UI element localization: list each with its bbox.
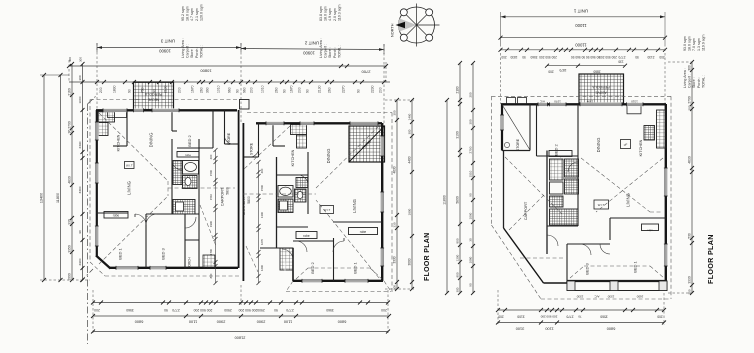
unit 1 window top b bbox=[550, 102, 567, 106]
vertical dimension chain C (right plan) bbox=[472, 63, 474, 293]
svg-text:2770: 2770 bbox=[566, 315, 573, 319]
extension ticks right of left drawing bbox=[385, 99, 414, 101]
unit 3 robe bbox=[104, 212, 128, 219]
svg-text:90: 90 bbox=[274, 308, 278, 312]
svg-text:11800: 11800 bbox=[56, 193, 60, 203]
svg-text:1.3 sqm: 1.3 sqm bbox=[697, 38, 701, 51]
svg-text:BED 3: BED 3 bbox=[585, 262, 590, 274]
svg-text:KITCHEN: KITCHEN bbox=[291, 149, 295, 166]
svg-text:W.I.T: W.I.T bbox=[598, 203, 605, 207]
unit 1 left wall bbox=[501, 104, 503, 151]
dimension line UNIT 2 overall 10900 (top row) bbox=[241, 49, 384, 50]
svg-text:120.0 sqm: 120.0 sqm bbox=[199, 4, 203, 21]
svg-text:1200: 1200 bbox=[456, 254, 460, 261]
eave line unit 1 bbox=[492, 95, 672, 97]
unit 2 verandah dashed outline bbox=[286, 291, 391, 293]
unit 2 window right wall a bbox=[380, 136, 384, 156]
dimension tick row (right plan top) bbox=[501, 49, 666, 51]
svg-text:11000: 11000 bbox=[575, 43, 587, 48]
svg-text:LIVING: LIVING bbox=[352, 199, 357, 213]
unit 3 window top wall 2 bbox=[134, 108, 144, 112]
svg-text:1510: 1510 bbox=[469, 170, 473, 177]
svg-text:1670: 1670 bbox=[260, 238, 264, 245]
svg-text:200 900 200: 200 900 200 bbox=[238, 308, 257, 312]
svg-text:18.0 sqm: 18.0 sqm bbox=[186, 6, 190, 21]
svg-text:1510: 1510 bbox=[209, 193, 213, 200]
svg-text:200 900 200: 200 900 200 bbox=[193, 308, 212, 312]
svg-text:CARPORT: CARPORT bbox=[524, 201, 528, 220]
pergola unit 2 patio (hatched) bbox=[349, 126, 385, 162]
unit 3 kitchen bench (hatched) bbox=[98, 112, 115, 123]
svg-text:18.0 sqm: 18.0 sqm bbox=[324, 6, 328, 21]
svg-text:STORE: STORE bbox=[516, 138, 520, 151]
svg-text:93.0 sqm: 93.0 sqm bbox=[683, 36, 687, 51]
unit 1 bed3 door arc bbox=[580, 244, 591, 255]
svg-text:200 900 200: 200 900 200 bbox=[599, 55, 617, 59]
svg-text:200 900 200: 200 900 200 bbox=[539, 55, 557, 59]
svg-text:DINING: DINING bbox=[596, 138, 601, 153]
svg-text:robe: robe bbox=[303, 234, 310, 238]
eave line unit 2 bbox=[247, 112, 392, 114]
svg-text:1100: 1100 bbox=[283, 320, 292, 325]
unit 2 robe 2 bbox=[349, 228, 378, 235]
pergola unit 1 (hatched) bbox=[579, 74, 624, 105]
unit 2 lower-left walls bbox=[292, 248, 294, 281]
svg-text:3560: 3560 bbox=[326, 308, 334, 312]
svg-text:FLOOR PLAN: FLOOR PLAN bbox=[424, 233, 431, 282]
svg-text:BED 2: BED 2 bbox=[554, 143, 559, 155]
svg-text:11800: 11800 bbox=[443, 195, 447, 205]
svg-text:2770: 2770 bbox=[618, 55, 625, 59]
svg-text:300: 300 bbox=[456, 287, 460, 292]
svg-text:2.0 sqm: 2.0 sqm bbox=[333, 8, 337, 21]
unit 2 bed2 door arc bbox=[296, 241, 307, 252]
svg-text:3100: 3100 bbox=[456, 131, 460, 139]
svg-text:90: 90 bbox=[164, 308, 168, 312]
svg-text:Porch :: Porch : bbox=[195, 47, 199, 58]
svg-text:4630: 4630 bbox=[688, 156, 692, 164]
svg-text:6800: 6800 bbox=[134, 320, 143, 325]
svg-text:1000: 1000 bbox=[78, 96, 82, 103]
extension line unit2 right bbox=[383, 44, 385, 123]
svg-text:70: 70 bbox=[578, 315, 582, 319]
dimension line 10800 / 2700 (row 2) bbox=[69, 65, 386, 67]
extension line left boundary bbox=[68, 60, 70, 82]
svg-text:W.I.T: W.I.T bbox=[324, 208, 331, 212]
unit 1 wit box bbox=[594, 200, 609, 209]
svg-text:300: 300 bbox=[688, 65, 692, 71]
svg-text:10900: 10900 bbox=[159, 49, 171, 54]
svg-text:BED 1: BED 1 bbox=[118, 247, 123, 259]
unit 2 robe 1 bbox=[296, 232, 317, 239]
svg-text:1530: 1530 bbox=[576, 295, 583, 299]
svg-text:200: 200 bbox=[99, 87, 103, 93]
unit 1 bottom wall left part bbox=[544, 282, 568, 284]
svg-text:DINING: DINING bbox=[326, 149, 331, 164]
svg-text:1830: 1830 bbox=[113, 85, 117, 93]
svg-text:200 900 200: 200 900 200 bbox=[540, 315, 557, 319]
svg-text:Porch :: Porch : bbox=[333, 47, 337, 58]
vertical dimension 13400 (far left) bbox=[43, 75, 45, 280]
svg-text:900: 900 bbox=[456, 272, 460, 277]
extension lines right plan top bbox=[500, 44, 502, 104]
svg-text:90: 90 bbox=[469, 193, 473, 197]
svg-text:1010: 1010 bbox=[217, 85, 221, 93]
svg-text:STORE: STORE bbox=[250, 142, 254, 155]
svg-text:300: 300 bbox=[688, 289, 692, 294]
svg-text:BED 1: BED 1 bbox=[353, 261, 358, 273]
svg-text:PORCH: PORCH bbox=[188, 257, 192, 269]
svg-text:Carport :: Carport : bbox=[186, 44, 190, 58]
svg-text:21800: 21800 bbox=[234, 336, 246, 341]
svg-text:200: 200 bbox=[381, 308, 387, 312]
dimension line UNIT 3 overall 10900 (top row) bbox=[97, 47, 241, 49]
svg-text:400: 400 bbox=[68, 57, 72, 62]
unit 3 entry door arc bbox=[185, 217, 196, 228]
svg-text:DINING: DINING bbox=[149, 133, 154, 148]
svg-text:2130: 2130 bbox=[647, 55, 654, 59]
svg-text:3330: 3330 bbox=[688, 276, 692, 284]
svg-text:200: 200 bbox=[298, 87, 302, 93]
unit 1 kitchen bench (hatched) bbox=[657, 110, 667, 148]
unit 3 porch steps hatch bbox=[203, 255, 215, 268]
svg-text:1900: 1900 bbox=[209, 220, 213, 227]
svg-text:90: 90 bbox=[469, 283, 473, 287]
svg-text:UNIT 3: UNIT 3 bbox=[160, 39, 175, 44]
svg-text:1700: 1700 bbox=[209, 248, 213, 255]
unit 1 window top a bbox=[538, 102, 548, 106]
svg-text:119.9 sqm: 119.9 sqm bbox=[701, 34, 705, 51]
svg-text:200: 200 bbox=[501, 55, 507, 59]
svg-text:30: 30 bbox=[469, 238, 473, 242]
svg-text:400: 400 bbox=[260, 168, 264, 173]
svg-text:FLOOR PLAN: FLOOR PLAN bbox=[706, 234, 715, 284]
unit 3 bed 2 robe bbox=[177, 152, 199, 158]
svg-text:2700: 2700 bbox=[688, 96, 692, 104]
unit 1 pergola sliding door bbox=[580, 102, 622, 106]
svg-text:2900: 2900 bbox=[257, 308, 265, 312]
svg-text:200: 200 bbox=[469, 92, 473, 97]
unit 3 bath door arc bbox=[172, 160, 182, 170]
svg-text:robe: robe bbox=[647, 228, 653, 232]
svg-text:CARPORT: CARPORT bbox=[221, 187, 225, 206]
unit 2 bottom wall bbox=[293, 280, 383, 282]
svg-text:1060: 1060 bbox=[469, 212, 473, 219]
svg-text:PERGOLA: PERGOLA bbox=[592, 85, 610, 89]
svg-text:BED 3: BED 3 bbox=[161, 247, 166, 259]
svg-text:3560: 3560 bbox=[530, 55, 537, 59]
unit 2 verandah roof dashes bbox=[296, 268, 308, 279]
svg-text:300: 300 bbox=[79, 57, 83, 62]
bottom tick row (right plan) bbox=[498, 309, 664, 311]
svg-text:TOTAL :: TOTAL : bbox=[701, 75, 705, 88]
dimension tick row (left plan top) bbox=[69, 81, 390, 83]
svg-text:330: 330 bbox=[393, 222, 397, 227]
svg-text:7.0 sqm: 7.0 sqm bbox=[692, 38, 696, 51]
svg-text:11000: 11000 bbox=[575, 23, 587, 28]
unit 3 corner splay wall bbox=[96, 256, 111, 269]
svg-text:200: 200 bbox=[178, 87, 182, 93]
unit 1 bottom wall bbox=[567, 280, 667, 282]
svg-text:1670: 1670 bbox=[191, 85, 195, 93]
unit 3 top wall bbox=[96, 109, 237, 111]
svg-text:530: 530 bbox=[688, 233, 692, 239]
svg-text:5800: 5800 bbox=[456, 196, 460, 204]
svg-text:CARPORT: CARPORT bbox=[242, 196, 246, 215]
unit 3 store door arc bbox=[224, 133, 233, 144]
svg-text:Store :: Store : bbox=[328, 47, 332, 58]
bottom extension lines left plan bbox=[92, 290, 94, 334]
unit 3 bed 2 walls bbox=[171, 110, 173, 131]
svg-text:90: 90 bbox=[78, 230, 82, 234]
unit 3 bed3 door arc bbox=[146, 214, 157, 225]
svg-text:260: 260 bbox=[328, 87, 332, 93]
unit 3 carport edge bbox=[198, 214, 200, 268]
pergola unit 3 (hatched) bbox=[134, 82, 174, 110]
svg-text:130: 130 bbox=[618, 60, 624, 64]
svg-text:1100: 1100 bbox=[544, 327, 553, 332]
svg-text:4.7 sqm: 4.7 sqm bbox=[190, 8, 194, 21]
svg-text:LIVING: LIVING bbox=[127, 181, 132, 195]
unit 2 store bbox=[258, 123, 260, 157]
unit 3 eave bottom dashes bbox=[90, 262, 105, 276]
svg-text:3560: 3560 bbox=[126, 308, 134, 312]
unit 2 window bottom wall a bbox=[302, 279, 322, 283]
svg-text:90: 90 bbox=[635, 55, 639, 59]
svg-text:90 960 90: 90 960 90 bbox=[586, 55, 600, 59]
vertical dimension chain (left drawing right side B) bbox=[411, 100, 413, 289]
svg-text:BED 2: BED 2 bbox=[310, 261, 315, 273]
svg-text:2700: 2700 bbox=[469, 146, 473, 153]
unit 1 bath column (hatched) bbox=[550, 159, 564, 180]
svg-text:4400: 4400 bbox=[408, 156, 412, 163]
svg-text:110.3 sqm: 110.3 sqm bbox=[337, 4, 341, 21]
svg-text:300: 300 bbox=[469, 119, 473, 124]
unit 2 window right wall b bbox=[380, 192, 384, 212]
unit 2 bath block (hatched) bbox=[278, 186, 293, 198]
svg-text:KITCHEN: KITCHEN bbox=[117, 134, 121, 151]
unit 1 bed2 door arc bbox=[568, 162, 578, 172]
svg-text:1800: 1800 bbox=[408, 208, 412, 215]
svg-text:1080: 1080 bbox=[469, 256, 473, 263]
roof hip lines unit 2 bbox=[316, 126, 379, 188]
unit 3 porch bbox=[185, 240, 199, 268]
svg-text:2900: 2900 bbox=[256, 320, 265, 325]
property boundary line bbox=[87, 104, 89, 344]
svg-text:90: 90 bbox=[522, 55, 526, 59]
vertical dimension 11800 bbox=[60, 75, 62, 280]
svg-text:200: 200 bbox=[94, 308, 100, 312]
svg-text:200: 200 bbox=[657, 315, 663, 319]
unit 1 window top c bbox=[627, 102, 644, 106]
unit 3 bed1 door arc bbox=[135, 214, 146, 225]
vertical dimension chain A (right plan) bbox=[446, 100, 448, 293]
svg-text:2390: 2390 bbox=[78, 141, 82, 148]
svg-text:90: 90 bbox=[68, 130, 72, 134]
unit 1 bed1 door arc bbox=[600, 244, 610, 254]
unit 1 porch columns bbox=[567, 281, 667, 291]
unit 1 carport splay bbox=[504, 228, 544, 283]
svg-text:300: 300 bbox=[408, 129, 412, 134]
svg-text:2770: 2770 bbox=[172, 308, 180, 312]
svg-text:6800: 6800 bbox=[337, 320, 346, 325]
svg-text:6800: 6800 bbox=[606, 327, 615, 332]
svg-text:1000: 1000 bbox=[68, 273, 72, 281]
svg-text:10900: 10900 bbox=[303, 51, 315, 56]
svg-text:90: 90 bbox=[306, 89, 310, 93]
bottom dimension row 2 (right plan) bbox=[498, 322, 664, 324]
unit 3 carport diagonal dash bbox=[200, 205, 216, 246]
svg-text:A/C: A/C bbox=[594, 295, 600, 299]
hot water unit box bbox=[240, 100, 250, 110]
svg-text:2230: 2230 bbox=[371, 85, 375, 93]
svg-text:960: 960 bbox=[228, 87, 232, 93]
unit 2 kitchen bbox=[272, 123, 274, 146]
svg-text:3560: 3560 bbox=[600, 315, 608, 319]
svg-text:Carport :: Carport : bbox=[324, 44, 328, 58]
unit 2 window right wall c bbox=[380, 248, 384, 266]
svg-text:µF: µF bbox=[624, 143, 628, 147]
bottom dimension row 3 total 21800 bbox=[93, 331, 388, 333]
svg-text:Store :: Store : bbox=[692, 77, 696, 88]
vertical dimension chain (left drawing right side A) bbox=[396, 100, 398, 289]
unit 2 bath door arc bbox=[298, 175, 308, 185]
svg-text:4830: 4830 bbox=[68, 176, 72, 184]
svg-text:robe: robe bbox=[185, 153, 191, 157]
svg-text:2270: 2270 bbox=[342, 85, 346, 93]
unit 3 window left wall b bbox=[95, 163, 99, 183]
unit 1 store bbox=[502, 150, 530, 152]
svg-text:200: 200 bbox=[250, 87, 254, 93]
svg-text:Living Area :: Living Area : bbox=[319, 38, 323, 58]
unit 3 hall walls bbox=[146, 213, 199, 215]
extension line party wall bbox=[240, 43, 242, 122]
svg-text:ABOVE: ABOVE bbox=[595, 91, 607, 95]
svg-text:260: 260 bbox=[200, 87, 204, 93]
svg-text:83.8 sqm: 83.8 sqm bbox=[319, 6, 323, 21]
svg-text:960: 960 bbox=[243, 87, 247, 93]
svg-text:200: 200 bbox=[379, 87, 383, 93]
svg-text:10800: 10800 bbox=[200, 69, 212, 74]
unit 2 patio sliding door bbox=[350, 121, 378, 125]
svg-text:800: 800 bbox=[456, 238, 460, 243]
extension line unit3 left bbox=[96, 43, 98, 110]
party wall bbox=[238, 110, 240, 268]
svg-text:Living Area :: Living Area : bbox=[181, 38, 185, 58]
svg-text:PERGOLA: PERGOLA bbox=[144, 92, 162, 96]
svg-text:200: 200 bbox=[548, 70, 554, 74]
svg-text:2770: 2770 bbox=[286, 308, 294, 312]
extension line row2 right bbox=[385, 62, 387, 82]
unit 2 bed wall bbox=[333, 238, 335, 281]
svg-text:18.6 sqm: 18.6 sqm bbox=[688, 36, 692, 51]
eave line unit 3 bbox=[90, 99, 241, 101]
unit 1 bed2 robe bbox=[549, 151, 572, 157]
unit 2 window top wall a bbox=[266, 121, 284, 125]
north point symbol bbox=[396, 4, 440, 47]
svg-text:1530: 1530 bbox=[607, 295, 614, 299]
svg-text:1870: 1870 bbox=[559, 68, 566, 72]
svg-text:TOTAL :: TOTAL : bbox=[337, 45, 341, 58]
svg-text:90 960 90: 90 960 90 bbox=[571, 55, 585, 59]
unit 3 pergola sliding door bbox=[152, 108, 179, 112]
svg-text:390: 390 bbox=[206, 87, 210, 93]
unit 3 laundry (hatched) bbox=[173, 200, 195, 215]
svg-text:1200: 1200 bbox=[260, 264, 264, 271]
svg-text:1100: 1100 bbox=[188, 320, 197, 325]
unit 3 store bbox=[224, 110, 226, 144]
unit 3 window bottom wall a bbox=[116, 266, 138, 270]
unit 1 ac box bbox=[621, 140, 631, 149]
vertical dimension chain segments (left) bbox=[71, 64, 73, 280]
svg-text:LIVING: LIVING bbox=[626, 193, 631, 207]
unit 3 window bottom wall b bbox=[150, 266, 166, 270]
svg-text:3000: 3000 bbox=[408, 258, 412, 265]
svg-text:3350: 3350 bbox=[68, 245, 72, 253]
unit 3 bed1/bed3 wall bbox=[145, 217, 147, 268]
svg-text:2860: 2860 bbox=[593, 70, 600, 74]
svg-text:PORCH: PORCH bbox=[283, 262, 287, 273]
unit 1 bed2 walls bbox=[536, 104, 538, 156]
unit 1 entry door arc bbox=[547, 235, 558, 246]
svg-text:W.I.T: W.I.T bbox=[126, 164, 133, 168]
vertical dimension chain B (right plan) bbox=[459, 63, 461, 293]
svg-text:UNIT 1: UNIT 1 bbox=[573, 9, 588, 14]
unit 1 window store bbox=[500, 115, 504, 130]
svg-text:95.2 sqm: 95.2 sqm bbox=[181, 6, 185, 21]
svg-text:90: 90 bbox=[283, 89, 287, 93]
bottom tick row (left plan) bbox=[93, 302, 388, 304]
unit 2 bed1 door arc bbox=[333, 241, 344, 252]
svg-text:90: 90 bbox=[128, 89, 132, 93]
unit 2 carport inner dimension chain bbox=[258, 162, 260, 283]
unit 3 bottom wall bbox=[110, 267, 238, 269]
svg-text:3300: 3300 bbox=[78, 186, 82, 193]
unit 3 kitchen partition bbox=[126, 110, 128, 146]
svg-text:1830: 1830 bbox=[510, 55, 517, 59]
roof hip lines unit 1 bbox=[581, 158, 650, 212]
svg-text:robe: robe bbox=[113, 214, 120, 218]
unit 2 store door arc bbox=[250, 146, 259, 157]
vertical dimension chain 2 (left) bbox=[82, 64, 84, 280]
svg-text:330: 330 bbox=[68, 219, 72, 225]
svg-text:2700: 2700 bbox=[361, 70, 371, 75]
svg-text:1500: 1500 bbox=[260, 184, 264, 191]
svg-text:NORTH: NORTH bbox=[391, 23, 395, 37]
unit 2 entry arc bbox=[282, 249, 293, 260]
svg-text:2900: 2900 bbox=[224, 308, 232, 312]
svg-text:2700: 2700 bbox=[68, 121, 72, 129]
unit 3 window left wall a bbox=[95, 122, 99, 140]
unit 1 ac pads on top wall bbox=[507, 98, 516, 104]
svg-text:300: 300 bbox=[78, 75, 82, 80]
svg-text:Porch :: Porch : bbox=[697, 77, 701, 88]
svg-text:2100: 2100 bbox=[456, 86, 460, 93]
unit 1 bed roof dashes bbox=[570, 266, 584, 278]
svg-text:2.1 sqm: 2.1 sqm bbox=[195, 8, 199, 21]
svg-text:1650: 1650 bbox=[636, 295, 643, 299]
svg-text:1300: 1300 bbox=[260, 211, 264, 218]
svg-text:2160: 2160 bbox=[68, 88, 72, 96]
unit 3 window top wall bbox=[103, 108, 127, 112]
svg-text:90: 90 bbox=[357, 89, 361, 93]
unit 2 porch steps (hatched) bbox=[280, 248, 293, 270]
svg-text:robe: robe bbox=[557, 154, 563, 158]
svg-text:5800: 5800 bbox=[247, 196, 251, 204]
unit 1 right wall bbox=[665, 104, 667, 281]
svg-text:Carport :: Carport : bbox=[688, 74, 692, 88]
svg-text:KITCHEN: KITCHEN bbox=[639, 139, 643, 156]
